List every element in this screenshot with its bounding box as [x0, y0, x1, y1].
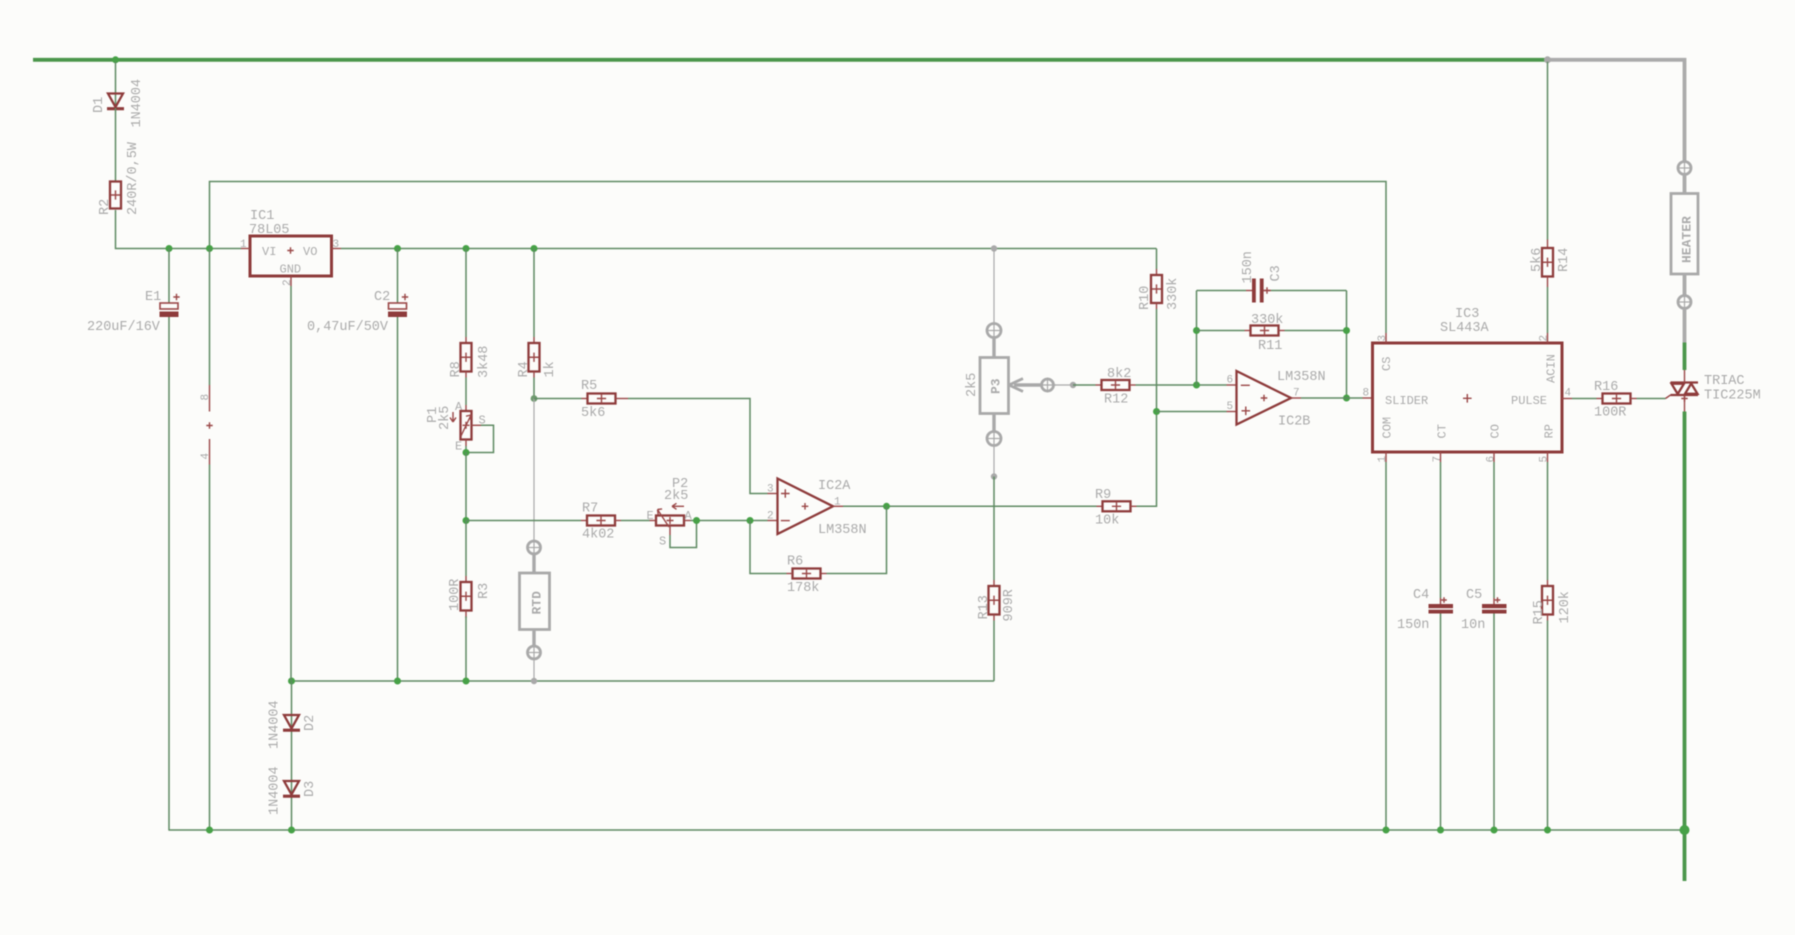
svg-text:TIC225M: TIC225M	[1704, 389, 1761, 404]
svg-text:150n: 150n	[1397, 618, 1429, 633]
resistor R9 10k	[1097, 505, 1103, 507]
wire top bus to R14	[1547, 62, 1549, 240]
resistor R16 100R	[1597, 398, 1603, 400]
svg-text:ACIN: ACIN	[1545, 354, 1559, 383]
wire mains to heater (thick gray)	[1548, 60, 1685, 162]
junction +5V / P3 (gray)	[991, 245, 997, 251]
svg-text:LM358N: LM358N	[1277, 370, 1326, 385]
pin IC1.3 stub	[332, 248, 342, 250]
pin triac gate stub	[1666, 395, 1671, 399]
junction raw rail / power pin line	[206, 245, 213, 252]
wire feedback left vertical	[1196, 291, 1198, 386]
pin P2.S stub	[669, 526, 671, 536]
op-amp IC2A LM358N	[778, 479, 834, 535]
svg-text:0,47uF/50V: 0,47uF/50V	[307, 320, 389, 335]
wire P2 to IC2A pin 2	[684, 520, 691, 522]
wire +5V to R8	[465, 249, 467, 338]
op-amp IC2 power pin 8	[209, 385, 211, 412]
triac TIC225M	[1671, 381, 1699, 383]
svg-text:A: A	[455, 400, 463, 414]
svg-text:120k: 120k	[1558, 591, 1573, 623]
svg-text:10n: 10n	[1461, 618, 1485, 633]
svg-text:PULSE: PULSE	[1511, 394, 1547, 408]
svg-text:6: 6	[1227, 375, 1234, 387]
junction R4 / R5 / RTD	[531, 395, 538, 402]
junction +5V / C2	[394, 245, 401, 252]
svg-text:78L05: 78L05	[249, 223, 290, 238]
wire P1.E down	[465, 446, 467, 453]
wire analog ground (y=681)	[292, 680, 995, 682]
junction raw rail / E1	[166, 245, 173, 252]
pin IC3.5 stub	[1547, 452, 1549, 462]
junction gnd / R15	[1544, 827, 1551, 834]
svg-text:240R/0,5W: 240R/0,5W	[126, 141, 141, 215]
svg-text:LM358N: LM358N	[818, 523, 867, 538]
pin IC1.1 stub	[241, 248, 250, 250]
svg-text:7: 7	[1432, 456, 1444, 463]
diode D3	[284, 781, 299, 795]
pin IC1.2 stub	[290, 276, 292, 286]
connector heater bottom circle	[1678, 296, 1691, 309]
svg-text:COM: COM	[1381, 417, 1395, 439]
capacitor C5 10n	[1493, 598, 1495, 604]
wire node to RTD (gray)	[533, 399, 535, 542]
svg-text:R4: R4	[517, 361, 532, 377]
pin IC2B.7 stub	[1291, 397, 1301, 399]
wire +5V to R10	[1156, 249, 1158, 270]
junction R3 / R7 branch	[463, 517, 470, 524]
svg-text:VI: VI	[262, 245, 276, 259]
svg-text:R3: R3	[477, 583, 492, 599]
wire R2 to raw rail	[116, 210, 242, 249]
junction R10 / IC2B pin 5	[1153, 408, 1160, 415]
diode D1	[108, 94, 123, 108]
junction gnd / mains neutral	[1680, 825, 1690, 835]
wire mains phase bus (thick green)	[33, 58, 1548, 62]
svg-text:3k48: 3k48	[477, 346, 492, 378]
svg-text:330k: 330k	[1251, 313, 1283, 328]
wire R3 node to R7	[466, 520, 581, 522]
wire heater body to bottom pin (gray)	[1683, 274, 1687, 296]
resistor R14 5k6	[1547, 240, 1549, 249]
svg-text:100R: 100R	[448, 579, 463, 611]
svg-text:3: 3	[767, 484, 774, 496]
pin IC2A.1 stub	[833, 505, 843, 507]
svg-text:HEATER: HEATER	[1680, 216, 1695, 263]
capacitor E1 220uF/16V	[160, 303, 178, 309]
svg-text:2: 2	[1539, 335, 1551, 342]
svg-text:IC2B: IC2B	[1278, 415, 1310, 430]
resistor R13 909R	[993, 580, 995, 586]
svg-text:1N4004: 1N4004	[130, 79, 145, 128]
wire R7 to P2	[621, 520, 650, 522]
junction top bus / R14 (gray)	[1544, 56, 1551, 63]
wire feedback right vertical	[1346, 291, 1348, 399]
pin IC2A.3 stub	[768, 493, 778, 495]
wire raw rail to IC2 power pin 8	[209, 249, 211, 386]
svg-text:5k6: 5k6	[581, 406, 605, 421]
junction gnd / IC3 COM	[1383, 827, 1390, 834]
pin IC2B.5 stub	[1227, 411, 1237, 413]
wire R5 to IC2A pin 3	[628, 399, 768, 494]
wire R6 feedback	[827, 506, 887, 573]
junction P2.A / wiper	[693, 517, 700, 524]
wire ground bus (y=830)	[168, 829, 1684, 831]
junction top bus / D1	[112, 56, 119, 63]
svg-text:8: 8	[1363, 388, 1370, 400]
wire agnd to D2	[291, 681, 293, 830]
svg-text:SLIDER: SLIDER	[1385, 394, 1428, 408]
junction +5V / R8	[463, 245, 470, 252]
wire R4 to R5 node	[533, 378, 535, 399]
svg-text:R5: R5	[581, 379, 597, 394]
junction feedback right / IC2B out	[1343, 395, 1350, 402]
pin IC3.7 stub	[1440, 452, 1442, 462]
junction gnd / power pin 4	[206, 827, 213, 834]
wire IC3 COM to ground bus	[1385, 462, 1387, 830]
capacitor C3 150n	[1246, 290, 1252, 292]
connector RTD bottom pin circle	[528, 646, 541, 659]
wire IC3 CT to C4	[1440, 462, 1442, 598]
wire P3 pin to body	[992, 338, 995, 358]
wire P2 wiper loop to A	[670, 521, 697, 548]
wire C2 to analog ground	[397, 317, 399, 681]
svg-text:E1: E1	[145, 290, 161, 305]
heater element body	[1671, 194, 1698, 275]
connector P3 bottom pin circle	[987, 432, 1001, 446]
wire IC3 CO to C5	[1493, 462, 1495, 598]
wire raw rail to E1	[168, 249, 170, 304]
resistor R4 1k	[533, 337, 535, 343]
svg-text:8: 8	[200, 394, 212, 401]
junction wiper net (gray dot)	[1070, 382, 1076, 388]
wire C3 left lead	[1197, 290, 1247, 292]
potentiometer P1 2k5	[465, 405, 467, 411]
pin IC3.4 stub	[1562, 398, 1572, 400]
resistor R15 120k	[1547, 580, 1549, 586]
svg-text:C2: C2	[374, 290, 390, 305]
wire R14 to IC3 ACIN	[1547, 287, 1549, 333]
svg-text:1: 1	[1377, 456, 1389, 463]
svg-text:1k: 1k	[543, 361, 558, 377]
junction IC2A out / R6	[883, 503, 890, 510]
wire IC2A out to R9	[843, 505, 1097, 507]
pin triac MT2 stub	[1684, 370, 1686, 383]
wire C3 right lead	[1264, 290, 1271, 292]
wire R3 to analog ground	[465, 617, 467, 682]
svg-text:2: 2	[282, 279, 294, 286]
wire R9 to R10/pin5 vertical	[1137, 412, 1157, 507]
resistor R5 5k6	[582, 398, 588, 400]
svg-text:100R: 100R	[1594, 406, 1626, 421]
wire IC3 PULSE to R16	[1572, 398, 1597, 400]
svg-text:IC1: IC1	[250, 209, 274, 224]
resistor R12 8k2	[1096, 384, 1102, 386]
op-amp IC2 power pin 4	[209, 439, 211, 465]
svg-text:E: E	[647, 509, 654, 523]
wire wiper to net start (gray)	[1054, 384, 1071, 386]
pin P1.S stub	[472, 424, 482, 426]
svg-text:C3: C3	[1269, 265, 1284, 281]
svg-text:909R: 909R	[1002, 589, 1017, 621]
svg-text:8k2: 8k2	[1107, 367, 1131, 382]
wire IC1 GND to agnd	[290, 286, 292, 681]
op-amp IC2B LM358N	[1237, 371, 1292, 425]
svg-text:178k: 178k	[787, 581, 819, 596]
wire R8 to P1	[465, 378, 467, 406]
pin IC3.3 stub	[1385, 333, 1387, 343]
svg-text:C4: C4	[1413, 588, 1429, 603]
junction P3 / R13 (gray)	[991, 473, 997, 479]
wire R10 to pin5 junction	[1156, 309, 1158, 412]
junction agnd / IC1 GND	[288, 678, 295, 685]
wire to IC2B pin 5	[1157, 411, 1227, 413]
svg-text:4: 4	[1565, 388, 1572, 400]
svg-text:R9: R9	[1095, 488, 1111, 503]
svg-text:S: S	[659, 535, 666, 549]
svg-text:D2: D2	[303, 715, 318, 731]
svg-text:IC2A: IC2A	[818, 479, 851, 494]
wire bus to D1	[115, 62, 117, 108]
junction R12 / feedback	[1193, 382, 1200, 389]
potentiometer P3 2k5	[980, 358, 1009, 414]
svg-text:6: 6	[1486, 456, 1498, 463]
pin IC3.8 stub	[1363, 397, 1373, 399]
svg-text:2k5: 2k5	[664, 489, 688, 504]
sensor RTD body	[520, 573, 550, 630]
svg-text:R12: R12	[1104, 393, 1128, 408]
wire R15 to ground bus	[1547, 621, 1549, 831]
pin P1.E stub	[465, 440, 467, 447]
wire E1 to ground bus	[168, 317, 170, 830]
junction P1.E / wiper	[463, 449, 470, 456]
svg-text:R7: R7	[582, 502, 598, 517]
svg-text:1N4004: 1N4004	[268, 766, 283, 815]
wire P3 body to bottom pin	[992, 414, 995, 433]
resistor R2 240R/0,5W	[110, 182, 121, 209]
svg-text:R2: R2	[98, 199, 113, 215]
wire raw rail upper loop	[210, 182, 1387, 334]
junction feedback R6	[747, 517, 754, 524]
svg-text:D1: D1	[92, 97, 107, 113]
svg-text:CS: CS	[1380, 357, 1394, 371]
svg-text:330k: 330k	[1166, 278, 1181, 310]
wire R11 row right	[1285, 330, 1347, 332]
svg-text:R16: R16	[1594, 380, 1618, 395]
pin IC3.1 stub	[1385, 452, 1387, 462]
svg-text:GND: GND	[280, 263, 302, 277]
svg-text:TRIAC: TRIAC	[1704, 374, 1745, 389]
wire triac MT1 to mains neutral (thick green)	[1683, 412, 1687, 882]
svg-text:R8: R8	[449, 361, 464, 377]
wire R12 to IC2B pin 6	[1136, 384, 1227, 386]
wiper P3 arrow	[1014, 383, 1042, 386]
svg-text:IC3: IC3	[1455, 307, 1479, 322]
svg-text:R15: R15	[1532, 600, 1547, 624]
connector heater top circle	[1678, 162, 1691, 175]
svg-text:150n: 150n	[1241, 251, 1256, 283]
wire heater pin to body (gray)	[1683, 175, 1687, 194]
wire P1 wiper loop to E	[466, 425, 494, 452]
pin IC2A.2 stub	[768, 520, 778, 522]
wire +5V to P3 (gray)	[993, 249, 995, 325]
svg-text:10k: 10k	[1095, 514, 1119, 529]
junction gnd / C5	[1491, 827, 1498, 834]
svg-text:2k5: 2k5	[965, 373, 980, 397]
wire RTD body to bottom pin	[532, 630, 535, 646]
wire P3 to R13	[993, 477, 995, 581]
resistor R8 3k48	[465, 337, 467, 343]
pin IC2B.6 stub	[1227, 384, 1237, 386]
wire P3 to R13 (gray)	[993, 446, 995, 477]
wire R6 to IC2A pin 2 net	[750, 521, 787, 574]
wire heater to triac MT2 (gray then green)	[1683, 309, 1687, 343]
wire C4 to ground bus	[1440, 614, 1442, 831]
svg-text:R11: R11	[1258, 339, 1282, 354]
wire D1 to R2	[115, 108, 117, 182]
svg-text:P3: P3	[989, 378, 1004, 394]
svg-text:D3: D3	[303, 781, 318, 797]
wire IC2 power pin 4 to ground bus	[209, 465, 211, 831]
junction gnd / C4	[1437, 827, 1444, 834]
wire +5V to C2	[397, 249, 399, 304]
wire junction to R3	[465, 521, 467, 577]
svg-text:1N4004: 1N4004	[268, 700, 283, 749]
ic IC3 SL443A	[1373, 343, 1563, 452]
capacitor C4 150n	[1440, 598, 1442, 604]
svg-text:SL443A: SL443A	[1440, 321, 1490, 336]
svg-text:RP: RP	[1543, 424, 1557, 438]
wire +5V rail	[341, 248, 1157, 250]
svg-text:5: 5	[1227, 401, 1234, 413]
svg-text:R13: R13	[977, 595, 992, 619]
junction feedback right / R11	[1343, 327, 1350, 334]
connector P3 wiper circle	[1042, 379, 1054, 391]
wire R4 node to R5	[534, 398, 582, 400]
wire R16 to triac gate	[1637, 398, 1666, 400]
diode D2	[284, 715, 299, 729]
svg-text:220uF/16V: 220uF/16V	[87, 320, 161, 335]
pin IC3.2 stub	[1547, 333, 1549, 343]
junction feedback left / R11	[1193, 327, 1200, 334]
svg-text:CT: CT	[1436, 424, 1450, 438]
pin triac MT1 stub	[1684, 395, 1686, 412]
junction agnd / R3	[463, 678, 470, 685]
voltage regulator IC1 78L05	[250, 236, 332, 276]
svg-text:4k02: 4k02	[582, 528, 614, 543]
wire RTD to analog ground (gray)	[533, 659, 535, 681]
wire C5 to ground bus	[1493, 614, 1495, 831]
svg-text:3: 3	[1377, 335, 1389, 342]
resistor R7 4k02	[581, 520, 587, 522]
svg-text:R6: R6	[787, 555, 803, 570]
resistor R3 100R	[465, 576, 467, 582]
resistor R11 330k	[1245, 330, 1251, 332]
wire wiper to R12	[1073, 384, 1096, 386]
junction agnd / RTD (gray)	[531, 678, 537, 684]
op-amp IC2 power symbol +	[206, 422, 212, 428]
wire IC2B out to IC3 SLIDER	[1301, 397, 1363, 399]
connector RTD top pin circle	[528, 541, 541, 554]
svg-text:R14: R14	[1557, 248, 1572, 272]
svg-text:E: E	[455, 440, 462, 454]
svg-text:4: 4	[200, 453, 212, 460]
junction +5V / R4	[531, 245, 538, 252]
svg-text:C5: C5	[1466, 588, 1482, 603]
wire IC3 RP to R15	[1547, 462, 1549, 580]
pin IC3.6 stub	[1493, 452, 1495, 462]
svg-text:R10: R10	[1138, 286, 1153, 310]
wire R13 to agnd	[993, 621, 995, 682]
junction gnd / D3	[288, 827, 295, 834]
svg-text:5: 5	[1539, 456, 1551, 463]
svg-text:2: 2	[767, 511, 774, 523]
resistor R6 178k	[821, 573, 827, 575]
svg-text:5k6: 5k6	[1530, 248, 1545, 272]
capacitor C2 0,47uF/50V	[389, 303, 407, 309]
svg-text:VO: VO	[303, 245, 317, 259]
resistor R10 330k	[1156, 269, 1158, 275]
svg-text:RTD: RTD	[530, 591, 545, 615]
wire R11 row left	[1197, 330, 1245, 332]
wire +5V to R4	[533, 249, 535, 338]
svg-text:CO: CO	[1489, 424, 1503, 438]
wire RTD pin to body	[532, 554, 535, 573]
potentiometer P2 2k5	[650, 520, 657, 522]
svg-text:2k5: 2k5	[438, 406, 453, 430]
connector P3 top pin circle	[987, 324, 1001, 338]
wire P1 to R7 junction	[465, 453, 467, 521]
junction agnd / C2	[394, 678, 401, 685]
